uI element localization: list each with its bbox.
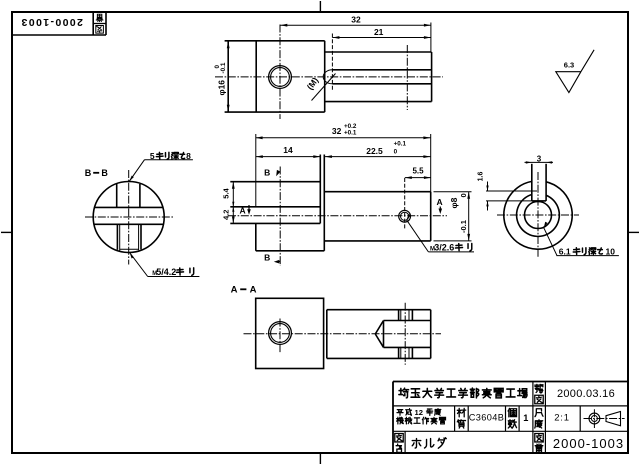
- front view: block outline: [230, 134, 324, 251]
- side view: drilled hole circle: [525, 202, 552, 229]
- dimension phi10 0/-0.1 (front view right): [434, 192, 472, 241]
- top view: square block outline: [225, 41, 325, 112]
- svg-text:A: A: [250, 284, 257, 295]
- reference box kanji zu (rotated): [96, 26, 104, 34]
- centering mark bottom: [319, 453, 321, 464]
- svg-text:φ8: φ8: [449, 197, 459, 208]
- svg-text:0: 0: [394, 149, 398, 156]
- label (M) with leader (top view): [305, 74, 336, 101]
- section label A left with down arrow: [240, 205, 251, 215]
- section label A right with down arrow: [437, 197, 443, 214]
- svg-text:6.3: 6.3: [564, 61, 574, 70]
- section A-A label: [231, 284, 257, 295]
- title: part name horuda: [412, 438, 446, 449]
- dimension 14 (front view): [256, 145, 320, 158]
- front view: cylinder outline: [324, 134, 430, 241]
- dimension 32 (top view): [280, 14, 431, 52]
- side view: keyway slot: [532, 164, 546, 201]
- title block grid: [393, 382, 628, 454]
- svg-text:+0.1: +0.1: [344, 130, 357, 137]
- B-B view: centerlines: [85, 170, 173, 265]
- svg-text:5.4: 5.4: [221, 187, 230, 198]
- centering mark top: [319, 1, 321, 12]
- surface finish symbol 6.3: [556, 50, 594, 93]
- section label B bottom with arrow: [264, 253, 280, 264]
- title: university name: [399, 388, 527, 398]
- side view: middle circle phi10 (interrupted by keyway): [517, 195, 560, 237]
- title: seizu (drawn) label: [535, 384, 543, 403]
- reference number box top-left: [12, 12, 106, 35]
- svg-text:2:1: 2:1: [554, 413, 570, 424]
- front view: M3 hole axis chain line: [404, 178, 406, 229]
- leader M5/4.2 kiri (B-B bottom): [130, 253, 200, 277]
- title: drawing number 2000-1003: [553, 436, 624, 451]
- svg-text:-0.1: -0.1: [220, 62, 227, 73]
- A-A view: tapped hole circles: [269, 322, 292, 345]
- svg-text:4.2: 4.2: [221, 210, 230, 220]
- top view: tapped hole circles M5: [269, 66, 292, 89]
- dimension 22.5 +0.1/0 (front view): [325, 140, 431, 158]
- dimension 32 +0.2/+0.1 (front view): [256, 123, 431, 139]
- title: material C3604B: [469, 413, 505, 423]
- side view: outer circle phi16 (interrupted by keyway): [504, 181, 572, 249]
- svg-text:-0.1: -0.1: [459, 220, 468, 233]
- dimension 21 (top view): [332, 27, 431, 39]
- title: quantity 1: [523, 413, 528, 423]
- title: kikai kousaku jisshuu: [397, 417, 446, 424]
- svg-text:8: 8: [186, 151, 191, 161]
- front view: M3 cross hole circles: [399, 210, 411, 222]
- side view: centerlines: [497, 172, 579, 258]
- leader 6.1 kiri depth 10 (side view): [544, 222, 619, 257]
- svg-text:6.1: 6.1: [559, 247, 571, 257]
- svg-text:A: A: [240, 205, 246, 215]
- A-A view: drilled bore with cone point: [375, 321, 430, 348]
- centering mark left: [1, 231, 12, 233]
- A-A view: hole vertical centerline: [279, 319, 281, 354]
- top view: horizontal centerline: [215, 76, 443, 78]
- front view: horizontal centerline A-A cutting line: [228, 215, 447, 217]
- B-B view: 5 drill hole lines (top): [117, 184, 140, 208]
- leader M3/2.6 kiri (front view): [407, 214, 475, 253]
- dimension 5.4 / 4.2 (front view left): [221, 182, 234, 224]
- title: zuban (number) label: [535, 433, 543, 452]
- svg-text:5: 5: [150, 151, 155, 161]
- svg-text:2000.03.16: 2000.03.16: [557, 388, 615, 400]
- svg-text:5.5: 5.5: [412, 167, 424, 176]
- svg-text:5/4.2: 5/4.2: [156, 267, 176, 277]
- title: date 2000.03.16: [557, 388, 615, 400]
- centering mark right: [628, 231, 639, 233]
- section B-B label: [85, 168, 109, 178]
- title: zaishitsu (material) label: [457, 408, 465, 428]
- A-A view: cylinder outline: [327, 310, 431, 359]
- reference box kanji ban (rotated): [96, 14, 103, 21]
- title: heisei 12 nendo: [397, 408, 441, 417]
- title: zumei (name) label: [395, 433, 403, 452]
- svg-text:3/2.6: 3/2.6: [434, 243, 454, 253]
- leader 5 kiri depth 8 (B-B top): [129, 151, 193, 182]
- third angle projection symbol: [584, 409, 625, 428]
- top view: keyway start extension line (dashed): [331, 34, 333, 91]
- top view: vertical centerline through hole: [279, 25, 281, 120]
- section label B top with arrow: [264, 168, 280, 178]
- svg-text:21: 21: [374, 27, 384, 37]
- B-B view: M5 tapped hole lines (bottom): [117, 224, 141, 250]
- A-A view: square block: [256, 298, 324, 368]
- A-A view: M3 thread section lines: [399, 310, 413, 359]
- svg-text:+0.1: +0.1: [394, 140, 407, 147]
- title: shakudo (scale) label: [535, 409, 543, 428]
- svg-text:3: 3: [537, 155, 542, 164]
- dimension 1.6 (side view keyway depth): [477, 172, 537, 211]
- svg-text:2000-1003: 2000-1003: [553, 436, 624, 451]
- svg-text:B: B: [264, 168, 270, 178]
- dimension 5.5 (front view): [405, 167, 431, 179]
- svg-text:22.5: 22.5: [366, 146, 383, 156]
- title: kosuu (quantity) label: [508, 408, 516, 428]
- top view: keyway slot lines with round end: [323, 70, 431, 84]
- A-A view: main axis centerline: [244, 333, 442, 335]
- svg-text:12: 12: [415, 408, 423, 417]
- svg-text:A: A: [437, 197, 443, 207]
- svg-text:10: 10: [606, 247, 616, 257]
- B-B view: slot chord lines: [94, 207, 163, 224]
- svg-text:φ16: φ16: [217, 80, 227, 96]
- svg-text:0: 0: [459, 193, 468, 197]
- svg-text:14: 14: [283, 145, 293, 155]
- svg-text:B: B: [101, 168, 108, 178]
- svg-text:1: 1: [523, 413, 528, 423]
- top view: M3 hole position chain line: [406, 45, 408, 110]
- svg-text:32: 32: [351, 14, 361, 24]
- svg-text:A: A: [231, 284, 238, 295]
- svg-text:32: 32: [332, 126, 342, 136]
- top view: cylinder outline: [325, 52, 432, 102]
- svg-text:B: B: [85, 168, 92, 178]
- front view: B-B cutting chain line: [279, 167, 281, 267]
- svg-text:1.6: 1.6: [477, 172, 484, 182]
- svg-text:C3604B: C3604B: [469, 413, 505, 423]
- dimension 3 (side view keyway width): [525, 155, 554, 164]
- svg-text:B: B: [264, 253, 270, 263]
- svg-text:2000-1003: 2000-1003: [20, 16, 83, 28]
- dimension phi16 with tolerance (top view left): [214, 41, 230, 112]
- B-B view: circle outline: [93, 182, 164, 253]
- title: scale 2:1: [554, 413, 570, 424]
- A-A view: M3 axis chain line: [404, 303, 406, 365]
